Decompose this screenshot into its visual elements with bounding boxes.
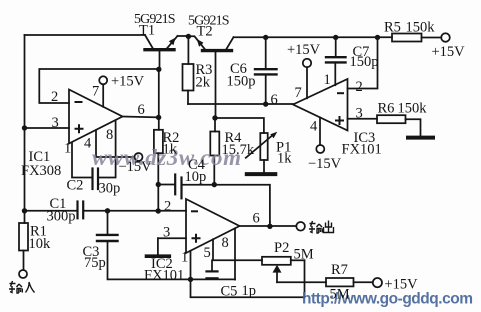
svg-text:8: 8 bbox=[106, 127, 113, 143]
svg-text:300p: 300p bbox=[47, 208, 76, 224]
svg-text:1k: 1k bbox=[163, 141, 178, 157]
svg-text:150k: 150k bbox=[398, 101, 428, 117]
svg-text:2: 2 bbox=[164, 198, 171, 214]
svg-text:1k: 1k bbox=[277, 150, 292, 166]
svg-text:T2: T2 bbox=[197, 23, 213, 39]
svg-text:4: 4 bbox=[84, 136, 92, 152]
svg-text:R6: R6 bbox=[378, 101, 395, 117]
svg-text:−15V: −15V bbox=[119, 159, 153, 175]
svg-text:5M: 5M bbox=[294, 246, 314, 262]
svg-text:150p: 150p bbox=[227, 74, 256, 90]
svg-text:15.7k: 15.7k bbox=[222, 142, 255, 158]
svg-text:30p: 30p bbox=[99, 181, 121, 197]
svg-text:2: 2 bbox=[356, 79, 363, 95]
svg-text:1: 1 bbox=[181, 249, 188, 265]
svg-text:1: 1 bbox=[324, 72, 331, 88]
svg-text:FX101: FX101 bbox=[342, 141, 382, 157]
svg-text:3: 3 bbox=[356, 106, 363, 122]
svg-text:8: 8 bbox=[222, 235, 229, 251]
svg-text:+15V: +15V bbox=[287, 42, 321, 58]
svg-text:10k: 10k bbox=[29, 236, 52, 252]
svg-text:10p: 10p bbox=[185, 169, 207, 185]
svg-text:7: 7 bbox=[295, 85, 302, 101]
svg-text:+15V: +15V bbox=[111, 74, 145, 90]
svg-text:C2: C2 bbox=[67, 177, 84, 193]
svg-text:FX101: FX101 bbox=[144, 267, 184, 283]
svg-text:R5: R5 bbox=[384, 19, 401, 35]
svg-text:3: 3 bbox=[52, 115, 59, 131]
svg-text:5: 5 bbox=[204, 245, 211, 261]
svg-text:2k: 2k bbox=[196, 74, 211, 90]
svg-text:5M: 5M bbox=[330, 286, 350, 302]
svg-text:3: 3 bbox=[163, 224, 170, 240]
svg-text:T1: T1 bbox=[139, 22, 155, 38]
svg-text:4: 4 bbox=[310, 118, 318, 134]
svg-text:−15V: −15V bbox=[308, 156, 342, 172]
svg-text:150k: 150k bbox=[406, 19, 436, 35]
svg-text:http://www.go-gddq.com: http://www.go-gddq.com bbox=[302, 291, 473, 308]
svg-text:7: 7 bbox=[92, 84, 99, 100]
svg-text:+15V: +15V bbox=[432, 44, 466, 60]
svg-text:1p: 1p bbox=[242, 283, 257, 299]
svg-text:2: 2 bbox=[51, 89, 58, 105]
svg-text:6: 6 bbox=[271, 92, 278, 108]
svg-text:FX308: FX308 bbox=[21, 163, 61, 179]
svg-text:P2: P2 bbox=[274, 240, 289, 256]
svg-text:R7: R7 bbox=[331, 262, 348, 278]
svg-text:75p: 75p bbox=[84, 255, 106, 271]
svg-text:1: 1 bbox=[64, 140, 71, 156]
svg-text:6: 6 bbox=[138, 102, 145, 118]
svg-text:6: 6 bbox=[253, 211, 260, 227]
svg-text:C5: C5 bbox=[221, 284, 238, 300]
svg-text:150p: 150p bbox=[350, 54, 379, 70]
svg-text:+15V: +15V bbox=[385, 277, 419, 293]
